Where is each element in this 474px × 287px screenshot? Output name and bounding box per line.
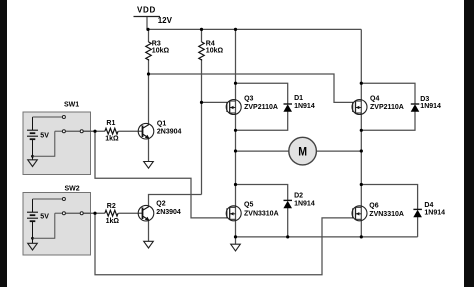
wire R1 to Q1 base <box>118 130 142 132</box>
diode D4 (1N914) <box>413 209 422 217</box>
svg-text:Q1: Q1 <box>157 121 166 128</box>
wire SW1 to Q5 gate <box>95 131 227 218</box>
svg-text:ZVN3310A: ZVN3310A <box>244 210 279 217</box>
wire top VDD rail <box>147 28 361 30</box>
wire R3 top lead <box>148 29 150 42</box>
transistor Q1 (2N3904 NPN) <box>138 123 154 139</box>
svg-text:ZVN3310A: ZVN3310A <box>369 211 404 218</box>
wire R2 to Q2 base <box>118 212 142 214</box>
svg-text:M: M <box>298 145 307 159</box>
svg-text:ZVP2110A: ZVP2110A <box>244 104 278 111</box>
wire D1 branch top rail <box>236 83 288 104</box>
svg-text:R4: R4 <box>206 40 215 47</box>
junction in SW2 <box>31 237 34 240</box>
wire D2 branch bottom lead <box>287 208 289 237</box>
wire D2 branch top rail <box>236 185 288 201</box>
wire SW2 to Q6 gate <box>95 213 353 275</box>
diode D3 (1N914) <box>411 104 420 112</box>
wire VDD stub <box>146 17 148 30</box>
wire Q1 collector <box>148 74 150 125</box>
ground in SW2 <box>28 243 38 250</box>
svg-text:SW1: SW1 <box>64 101 79 108</box>
transistor Q5 (ZVN3310A NMOS) <box>226 206 241 221</box>
battery V1 in SW1 <box>27 117 38 160</box>
wire D3 branch bottom rail <box>361 111 415 130</box>
power symbol VDD <box>134 6 173 26</box>
resistor R4 <box>199 42 204 61</box>
wire D3 branch top rail <box>361 83 415 104</box>
svg-text:Q5: Q5 <box>244 202 253 209</box>
ground below Q5 source rail <box>231 244 241 251</box>
wire R4 top lead <box>201 29 203 42</box>
wire source rail (Q5/Q6/D2/D4) <box>236 236 418 238</box>
ground below Q1 <box>144 162 154 169</box>
diode D1 (1N914) <box>283 104 292 112</box>
svg-text:1kΩ: 1kΩ <box>106 218 120 225</box>
wire R3 bottom lead to gate rail <box>148 59 150 74</box>
wire motor right lead <box>316 150 361 152</box>
switch SW1 enclosure box <box>23 112 91 175</box>
svg-text:Q2: Q2 <box>156 201 165 208</box>
ground in SW1 <box>28 160 38 167</box>
wire left column (R3/Q3/Q5 branch vertical) <box>235 29 237 244</box>
battery V2 in SW2 <box>27 199 38 243</box>
wire Q3 gate feed <box>202 101 228 103</box>
svg-text:SW2: SW2 <box>65 185 80 192</box>
svg-text:10kΩ: 10kΩ <box>152 48 170 55</box>
svg-text:2N3904: 2N3904 <box>156 209 181 216</box>
svg-text:2N3904: 2N3904 <box>157 128 182 135</box>
svg-text:D1: D1 <box>294 95 303 102</box>
svg-text:1N914: 1N914 <box>294 103 315 110</box>
switch SW2 contacts and blade <box>33 198 91 239</box>
resistor R1 <box>105 128 118 134</box>
svg-text:10kΩ: 10kΩ <box>206 48 224 55</box>
transistor Q6 (ZVN3310A NMOS) <box>352 206 367 221</box>
svg-text:VDD: VDD <box>137 6 156 15</box>
svg-text:R3: R3 <box>152 40 161 47</box>
svg-text:ZVP2110A: ZVP2110A <box>370 104 404 111</box>
svg-text:D3: D3 <box>420 96 429 103</box>
wire D4 branch top rail <box>361 185 417 210</box>
wire SW1 output to R1 <box>83 130 105 132</box>
svg-text:Q6: Q6 <box>369 202 378 209</box>
transistor Q4 (ZVP2110A PMOS) <box>352 100 367 115</box>
svg-text:Q4: Q4 <box>370 96 379 103</box>
svg-text:1N914: 1N914 <box>424 209 445 216</box>
wire D1 branch bottom rail <box>236 111 288 130</box>
switch SW2 enclosure box <box>23 193 91 256</box>
wire D4 branch bottom lead <box>417 217 419 237</box>
svg-text:Q3: Q3 <box>244 95 253 102</box>
diode D2 (1N914) <box>283 200 292 208</box>
resistor R3 <box>146 42 151 61</box>
svg-text:R2: R2 <box>107 203 116 210</box>
svg-text:R1: R1 <box>106 120 115 127</box>
wire Q2 emitter to ground <box>148 220 150 241</box>
switch SW1 contacts and blade <box>33 116 91 157</box>
wire motor left lead <box>236 150 290 152</box>
svg-text:1kΩ: 1kΩ <box>105 135 119 142</box>
junction in SW1 <box>31 155 34 158</box>
motor M <box>289 137 317 165</box>
wire Q1 emitter to ground <box>148 138 150 161</box>
ground below Q2 <box>144 241 154 248</box>
svg-text:5V: 5V <box>40 133 49 140</box>
svg-text:1N914: 1N914 <box>420 103 441 110</box>
transistor Q3 (ZVP2110A PMOS) <box>226 100 241 115</box>
wire SW2 output to R2 <box>83 212 105 214</box>
svg-text:12V: 12V <box>158 16 173 25</box>
wire gate rail from R3/Q1 node to Q4 gate <box>149 74 354 102</box>
svg-text:D2: D2 <box>294 193 303 200</box>
wire right column (Q4/Q6 branch vertical) <box>360 29 362 237</box>
transistor Q2 (2N3904 NPN) <box>138 205 154 221</box>
svg-text:D4: D4 <box>424 202 433 209</box>
svg-text:5V: 5V <box>40 213 49 220</box>
svg-text:1N914: 1N914 <box>294 201 315 208</box>
resistor R2 <box>105 210 118 216</box>
wire Q2 collector rail <box>149 195 202 208</box>
wire R4 bottom lead down to Q2 collector rail <box>201 59 203 195</box>
